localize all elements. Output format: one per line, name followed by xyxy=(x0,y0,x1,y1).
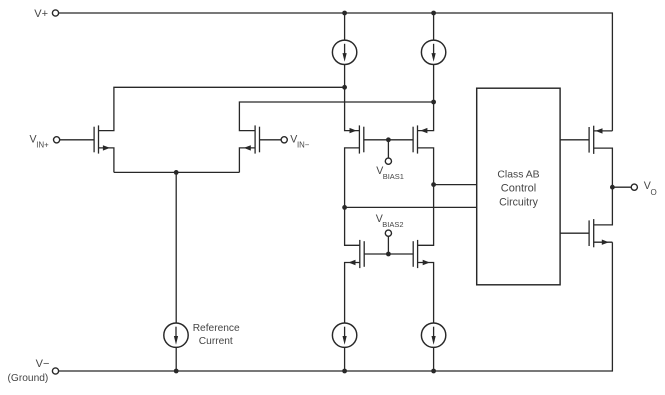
svg-text:Reference: Reference xyxy=(193,323,240,334)
svg-text:Circuitry: Circuitry xyxy=(499,196,539,208)
svg-text:Class AB: Class AB xyxy=(497,170,539,181)
svg-text:IN+: IN+ xyxy=(36,141,49,150)
svg-text:V−: V− xyxy=(36,358,50,370)
svg-text:Current: Current xyxy=(199,336,233,347)
svg-text:(Ground): (Ground) xyxy=(8,373,49,384)
svg-text:V+: V+ xyxy=(34,8,48,20)
svg-text:IN−: IN− xyxy=(297,141,310,150)
svg-text:BIAS2: BIAS2 xyxy=(382,220,403,229)
svg-text:O: O xyxy=(651,188,657,197)
svg-text:BIAS1: BIAS1 xyxy=(383,172,404,181)
svg-text:Control: Control xyxy=(501,183,536,195)
